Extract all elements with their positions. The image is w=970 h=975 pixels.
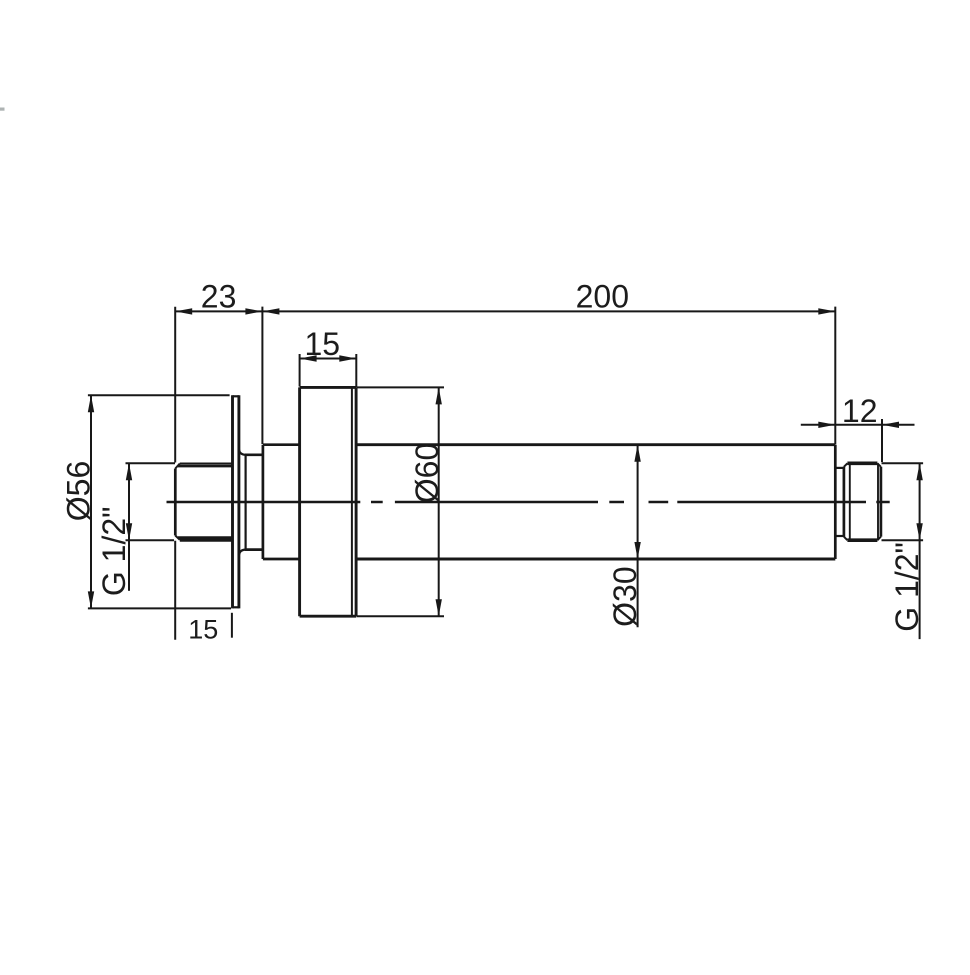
edge smudge artifact [0, 108, 5, 111]
svg-text:Ø56: Ø56 [60, 461, 96, 521]
svg-text:Ø60: Ø60 [409, 443, 445, 503]
svg-text:15: 15 [188, 615, 218, 645]
D60 disc [300, 387, 357, 616]
D30 tube [356, 445, 835, 559]
svg-text:15: 15 [305, 326, 341, 362]
svg-text:Ø30: Ø30 [607, 566, 643, 626]
dimension 12 [801, 419, 915, 462]
dimension 23 [175, 307, 262, 640]
svg-text:200: 200 [576, 279, 629, 315]
dimension D56 [88, 395, 231, 608]
left thread G1/2 body [175, 463, 232, 540]
neck behind flange [239, 450, 263, 555]
svg-text:G 1/2": G 1/2" [96, 506, 132, 596]
svg-text:12: 12 [842, 393, 878, 429]
right thread G1/2 [844, 463, 881, 540]
short D30 stub [263, 445, 300, 559]
right neck [835, 468, 844, 536]
dimension 15 bottom (thread length) [231, 613, 233, 638]
centerline axis [167, 501, 890, 504]
dimension G1/2 right [882, 463, 924, 639]
dimension D60 [357, 387, 445, 616]
dimension 200 [262, 307, 835, 445]
wall flange plate [233, 395, 239, 608]
dimension 15 top (disc width) [300, 354, 357, 387]
dimension G1/2 left [126, 463, 176, 591]
svg-text:23: 23 [201, 279, 237, 315]
dimension D30 [637, 445, 639, 628]
svg-text:G 1/2": G 1/2" [889, 542, 925, 632]
